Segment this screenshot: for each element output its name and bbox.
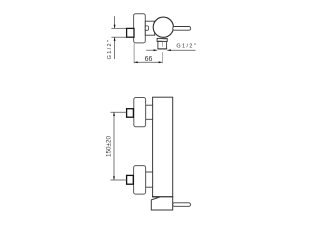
svg-text:66: 66 bbox=[145, 56, 153, 63]
dimension G1/2 left: extension tick top bbox=[111, 27, 126, 29]
dimension 150±20: arrow pointing down bbox=[113, 176, 115, 180]
svg-text:G1/2": G1/2" bbox=[107, 39, 113, 60]
outlet collar below body (side view) bbox=[157, 38, 167, 41]
top connector (front view) bbox=[146, 105, 153, 119]
dimension 150±20: extension tick bottom bbox=[110, 179, 126, 181]
lever handle (side view) bbox=[173, 27, 191, 31]
label G1/2 left (rotated) bbox=[107, 39, 113, 60]
svg-text:150±20: 150±20 bbox=[105, 136, 112, 157]
outlet pipe G1/2 (side view) bbox=[157, 41, 167, 49]
dimension G1/2 outlet: right leader line and arrow pointing left bbox=[167, 49, 195, 51]
label 66 bbox=[145, 56, 153, 63]
dimension G1/2 left: dimension line upper segment bbox=[114, 16, 116, 28]
bottom connector (front view) bbox=[146, 172, 153, 187]
svg-text:G1/2": G1/2" bbox=[176, 44, 197, 50]
inlet pipe G1/2 (side view) bbox=[127, 28, 134, 37]
dimension G1/2 left: arrow pointing down bbox=[114, 25, 116, 29]
connector hub between flange and body (side view) bbox=[145, 21, 154, 35]
dimension G1/2 left: arrow pointing up bbox=[114, 37, 116, 41]
label 150±20 (rotated) bbox=[105, 136, 112, 157]
bottom escutcheon flange (front view) bbox=[134, 166, 146, 195]
dimension 150±20: vertical dimension line bbox=[113, 112, 115, 180]
lever cartridge block (front view) bbox=[151, 197, 172, 210]
dimension G1/2 left: dimension line lower segment bbox=[114, 37, 116, 59]
dimension 66: dimension line with outward arrows bbox=[134, 61, 162, 63]
top union nut (front view) bbox=[127, 109, 134, 118]
lever handle (front view) bbox=[173, 203, 191, 207]
dimension G1/2 outlet: left line and arrow pointing right bbox=[146, 49, 157, 51]
outlet centerline bbox=[161, 42, 163, 63]
mixer body circle (side view) bbox=[153, 17, 173, 37]
dimension 150±20: arrow pointing up bbox=[113, 112, 115, 116]
escutcheon flange (side view) bbox=[134, 14, 146, 43]
mixer body (front view) bbox=[153, 97, 173, 197]
dimension 66: left extension line (wall face) bbox=[133, 43, 135, 63]
bottom union nut (front view) bbox=[127, 175, 134, 184]
label G1/2 outlet bbox=[176, 44, 197, 50]
set-screw notch on connector (side view) bbox=[145, 26, 148, 30]
dimension 150±20: extension tick top bbox=[110, 111, 126, 113]
top escutcheon flange (front view) bbox=[134, 98, 146, 127]
body bottom edge (front view) bbox=[152, 196, 173, 198]
dimension G1/2 left: extension tick bottom bbox=[111, 36, 126, 38]
